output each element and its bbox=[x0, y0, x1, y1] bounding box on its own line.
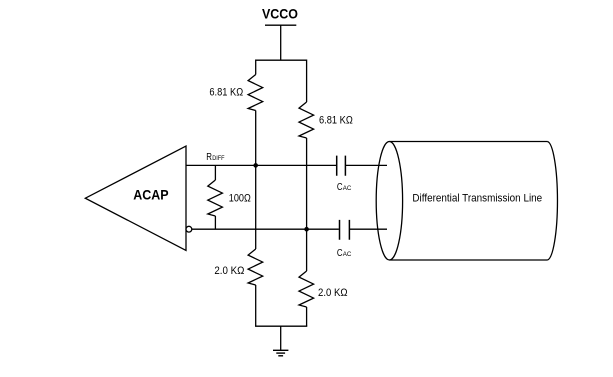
wire: right column below right 2.0K bbox=[306, 307, 308, 326]
resistor RDIFF 100Ω zigzag bbox=[208, 180, 223, 216]
svg-text:100Ω: 100Ω bbox=[229, 192, 251, 204]
wire: left column from R1 to left 2.0K resistor bbox=[255, 111, 257, 250]
wire: bottom differential line from bubble to bottom capacitor bbox=[192, 228, 339, 230]
resistor 2.0 KΩ (right pull-down) bbox=[299, 271, 314, 307]
svg-text:6.81 KΩ: 6.81 KΩ bbox=[209, 87, 243, 99]
svg-text:2.0 KΩ: 2.0 KΩ bbox=[214, 265, 244, 277]
power VCCO symbol bbox=[265, 25, 296, 60]
inversion bubble on ACAP lower output bbox=[186, 226, 192, 232]
wire: right column from R2 down to right 2.0K resistor bbox=[306, 138, 308, 271]
junction dot: left column on top line bbox=[253, 163, 258, 168]
wire: bottom differential line from capacitor to transmission line bbox=[350, 228, 387, 230]
junction dot: right column on bottom line bbox=[304, 227, 309, 232]
wire: top differential line from ACAP to top capacitor bbox=[186, 164, 336, 166]
wire: left column above R1 bbox=[255, 60, 257, 75]
resistor 6.81 KΩ (right pull-up) bbox=[299, 102, 314, 138]
svg-text:VCCO: VCCO bbox=[262, 5, 298, 21]
svg-text:Differential Transmission Line: Differential Transmission Line bbox=[412, 193, 542, 205]
capacitor CAC (bottom) plates bbox=[340, 220, 350, 240]
wire: right column above R2 bbox=[306, 60, 308, 103]
svg-text:2.0 KΩ: 2.0 KΩ bbox=[318, 287, 348, 299]
wire: top differential line from capacitor to transmission line bbox=[346, 164, 387, 166]
resistor 6.81 KΩ (left pull-up) bbox=[248, 75, 263, 111]
resistor RDIFF 100Ω leads bbox=[214, 165, 216, 229]
wire: left column below left 2.0K bbox=[255, 285, 257, 326]
wire: split bar from VCCO to both pull-up columns bbox=[256, 59, 307, 61]
wire: bottom bar joining pull-downs bbox=[255, 325, 307, 327]
svg-text:ACAP: ACAP bbox=[133, 187, 168, 203]
ground bbox=[273, 326, 288, 356]
transmission line cylinder bbox=[376, 142, 557, 261]
svg-text:6.81 KΩ: 6.81 KΩ bbox=[319, 115, 353, 127]
capacitor CAC (top) plates bbox=[337, 156, 346, 176]
resistor 2.0 KΩ (left pull-down) bbox=[248, 249, 263, 285]
buffer U1 ACAP (triangle driver) bbox=[85, 146, 186, 250]
